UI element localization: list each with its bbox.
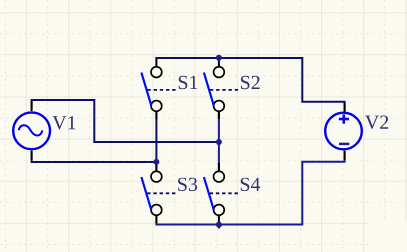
wire: S1 column vertical (S1 bottom to S3 top) <box>155 111 157 171</box>
pin S3 top <box>155 163 157 171</box>
V1 sine wave <box>19 125 43 135</box>
switch S4 <box>204 171 260 215</box>
S4 terminal circles <box>214 171 225 182</box>
wire: S2 column vertical (S2 bottom to S4 top) <box>218 111 220 171</box>
label V1 <box>52 116 75 130</box>
S1 arm <box>141 73 151 106</box>
junction at middle wire / S1 column <box>153 159 159 165</box>
pin S3 bottom <box>155 216 157 223</box>
S3 arm <box>141 177 151 210</box>
wire: V1 top loop to S2 column <box>32 100 219 142</box>
pin S1 top <box>155 58 157 67</box>
pin S2 top <box>218 58 220 67</box>
S2 terminal circles <box>214 67 225 78</box>
label S4 <box>241 178 261 191</box>
S4 dashed link <box>210 192 240 194</box>
V2 minus sign <box>339 143 349 146</box>
voltage source V2 (DC) <box>325 113 362 150</box>
S2 arm <box>204 73 214 106</box>
S3 dashed link <box>147 192 177 194</box>
wire: bottom net from S3/S4 bottoms to V2 - terminal <box>156 151 344 225</box>
pin S4 top <box>218 163 220 171</box>
label S3 <box>178 178 197 191</box>
pin V2 bottom <box>344 151 346 160</box>
switch S2 <box>204 67 260 112</box>
S3 terminal circles <box>151 171 162 182</box>
pin V1 bottom <box>31 151 33 160</box>
label S1 <box>179 76 198 89</box>
S2 dashed link <box>210 89 240 91</box>
V2 plus sign <box>339 114 349 123</box>
S4 arm <box>204 177 214 210</box>
voltage source V1 (AC) <box>13 112 50 149</box>
pin S2 bottom <box>218 111 220 119</box>
pin S4 bottom <box>218 216 220 229</box>
wire: top net from S1/S2 tops to V2 + terminal <box>155 58 344 111</box>
label S2 <box>241 76 260 89</box>
junction at bottom wire / S4 column <box>216 222 222 228</box>
pin S1 bottom <box>155 111 157 119</box>
wire: V1 bottom to S1 column <box>32 152 157 162</box>
junction at middle wire / S2 column <box>216 139 222 145</box>
pin V2 top <box>344 103 346 116</box>
pin V1 top <box>31 101 33 111</box>
label V2 <box>365 116 388 130</box>
S1 terminal circles <box>151 67 162 78</box>
switch S3 <box>141 171 197 215</box>
switch S1 <box>141 67 197 112</box>
S1 dashed link <box>147 89 177 91</box>
pins (black) <box>32 58 345 228</box>
junction at top wire / S2 column <box>216 55 222 61</box>
